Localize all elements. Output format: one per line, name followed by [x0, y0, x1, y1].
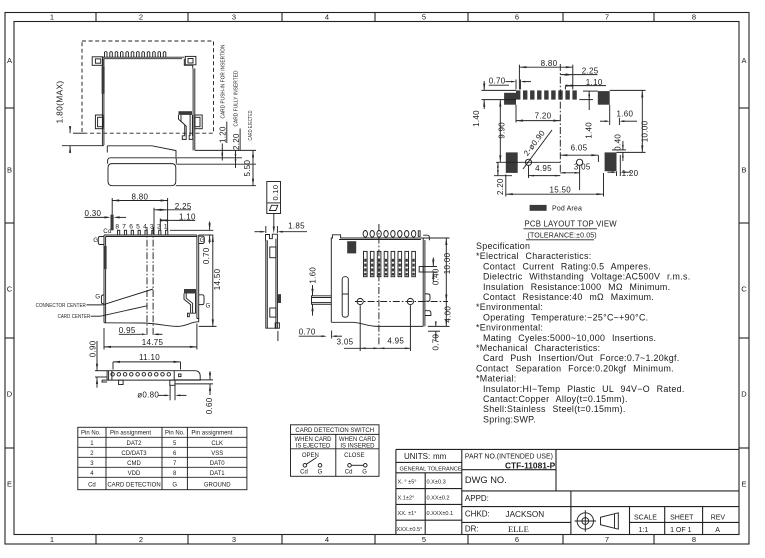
- side view: top contact pins: [105, 52, 108, 58]
- svg-text:A: A: [741, 56, 746, 65]
- svg-text:4.95: 4.95: [535, 164, 552, 173]
- svg-text:G: G: [200, 237, 205, 244]
- svg-text:CARD CENTER: CARD CENTER: [58, 314, 91, 320]
- top view: body outline: [103, 235, 105, 323]
- svg-text:PCB LAYOUT TOP VIEW: PCB LAYOUT TOP VIEW: [525, 220, 618, 229]
- top view: top pin stubs: [118, 230, 120, 235]
- svg-text:1: 1: [50, 13, 54, 22]
- svg-text:D: D: [741, 390, 747, 399]
- svg-text:Cd: Cd: [345, 470, 353, 476]
- bottom view: right mid tab: [425, 294, 430, 301]
- svg-text:DWG NO.: DWG NO.: [465, 475, 507, 485]
- svg-text:7.20: 7.20: [535, 111, 552, 120]
- svg-text:XXX.±0.5°: XXX.±0.5°: [397, 527, 423, 533]
- svg-text:0.XX±0.2: 0.XX±0.2: [427, 495, 450, 501]
- bottom view: top contact ovals: [363, 231, 367, 238]
- specification text block: [476, 241, 691, 424]
- svg-text:4.95: 4.95: [387, 337, 404, 346]
- frame column ticks bottom: [96, 535, 654, 545]
- svg-text:Insulation Resistance:1000 M: Insulation Resistance:1000 MΩ Minimum.: [483, 282, 670, 292]
- svg-text:E: E: [7, 480, 12, 489]
- svg-text:Dielectric Withstanding Volt: Dielectric Withstanding Voltage:AC500V r…: [483, 272, 691, 282]
- svg-text:G: G: [206, 303, 211, 310]
- side view: shell top-right mount tab: [185, 56, 196, 64]
- svg-text:Cd: Cd: [88, 482, 96, 488]
- svg-text:(TOLERANCE:±0.05): (TOLERANCE:±0.05): [528, 233, 597, 240]
- frame column numbers bottom: [50, 535, 696, 544]
- side view: pcb line: [62, 145, 104, 147]
- top view: Cd bold contact: [111, 215, 114, 231]
- bottom view: centerline: [378, 224, 380, 345]
- svg-text:3: 3: [232, 13, 236, 22]
- switch close symbol: [348, 464, 367, 468]
- svg-text:3.05: 3.05: [337, 338, 354, 347]
- bottom view: left slot: [342, 277, 348, 317]
- svg-text:1.40: 1.40: [584, 122, 593, 139]
- pcb: mount holes: [525, 159, 531, 165]
- side view: card stack (ejected / inserted positions): [107, 146, 176, 151]
- bottom view: break bottom edge: [331, 322, 423, 326]
- profile: square hole lower: [270, 308, 276, 317]
- title block: [396, 449, 739, 534]
- svg-text:C: C: [741, 285, 747, 294]
- svg-text:1.85: 1.85: [288, 222, 305, 231]
- svg-text:Insulator:HI−Temp Plastic UL: Insulator:HI−Temp Plastic UL 94V−O Rated…: [483, 384, 685, 394]
- profile bottom extension: [277, 331, 279, 341]
- svg-text:2: 2: [139, 13, 143, 22]
- svg-text:Contact Separation Force:0.2: Contact Separation Force:0.20kgf Minimum…: [476, 363, 674, 373]
- frame column ticks top: [96, 13, 654, 22]
- pcb: centerline: [559, 64, 561, 174]
- svg-text:5: 5: [422, 535, 426, 544]
- svg-text:Shell:Stainless Steel(t=0.15m: Shell:Stainless Steel(t=0.15mm).: [483, 404, 626, 414]
- svg-text:0.70: 0.70: [489, 77, 506, 86]
- svg-text:*Mechanical Characteristics:: *Mechanical Characteristics:: [476, 343, 600, 353]
- side view: shell body outline: [101, 57, 103, 146]
- svg-text:10.00: 10.00: [443, 252, 452, 274]
- svg-text:GROUND: GROUND: [204, 482, 231, 488]
- svg-text:14.75: 14.75: [142, 338, 164, 347]
- svg-text:7: 7: [122, 223, 126, 230]
- svg-text:*Material:: *Material:: [476, 374, 517, 384]
- svg-text:SHEET: SHEET: [670, 515, 694, 522]
- svg-text:CLK: CLK: [211, 441, 223, 447]
- svg-text:Pin No.: Pin No.: [81, 431, 101, 437]
- svg-text:8.80: 8.80: [132, 192, 149, 201]
- svg-text:mm: mm: [433, 452, 447, 461]
- svg-text:G: G: [93, 237, 98, 244]
- svg-text:*Environmental:: *Environmental:: [476, 323, 543, 333]
- svg-text:G: G: [95, 293, 100, 300]
- svg-text:CARD EJECTED: CARD EJECTED: [248, 111, 254, 141]
- switch open symbol: [303, 458, 322, 468]
- front view: body outline: [107, 371, 200, 380]
- svg-text:XX. ±1°: XX. ±1°: [398, 511, 417, 517]
- flatness leader: [273, 214, 275, 230]
- leader connector center: [87, 304, 103, 306]
- svg-text:X.1±2°: X.1±2°: [398, 495, 415, 501]
- svg-text:G: G: [318, 470, 323, 476]
- svg-text:15.50: 15.50: [550, 186, 572, 195]
- svg-text:VSS: VSS: [211, 451, 223, 457]
- svg-text:GENERAL TOLERANCE: GENERAL TOLERANCE: [400, 466, 462, 472]
- svg-text:D: D: [7, 390, 13, 399]
- bottom view: mount holes: [357, 298, 363, 304]
- card detection switch table: [291, 425, 380, 477]
- svg-text:Cd: Cd: [300, 470, 308, 476]
- svg-text:1.40: 1.40: [472, 110, 481, 127]
- svg-text:E: E: [741, 480, 746, 489]
- svg-text:6: 6: [515, 535, 519, 544]
- profile: square hole upper: [270, 247, 276, 258]
- bottom view: contact slots: [364, 251, 368, 276]
- side view: left lower tab: [95, 115, 102, 129]
- svg-text:CONNECTOR CENTER: CONNECTOR CENTER: [36, 303, 86, 309]
- profile: bottom foot: [275, 323, 279, 328]
- svg-text:0.30: 0.30: [85, 209, 102, 218]
- svg-text:UNITS:: UNITS:: [404, 452, 430, 461]
- svg-text:Spring:SWP.: Spring:SWP.: [483, 414, 536, 424]
- side view: shell top-left mount tab: [92, 57, 103, 66]
- svg-text:1.60: 1.60: [308, 267, 317, 284]
- side view: right lower tab: [195, 115, 202, 129]
- frame column numbers top: [50, 13, 696, 22]
- svg-text:0.70: 0.70: [299, 327, 316, 336]
- top view: left ground tab G: [98, 237, 104, 245]
- leader card center: [91, 315, 101, 317]
- svg-text:Contact Resistance:40 mΩ Ma: Contact Resistance:40 mΩ Maximum.: [483, 292, 654, 302]
- svg-text:X. ° ±5°: X. ° ±5°: [398, 480, 417, 486]
- frame row ticks left: [5, 108, 14, 448]
- svg-text:1.80(MAX): 1.80(MAX): [56, 80, 65, 123]
- svg-text:Card Push Insertion/Out For: Card Push Insertion/Out Force:0.7~1.20kg…: [483, 353, 680, 363]
- svg-text:0.40: 0.40: [613, 134, 622, 151]
- top view: right lower ground tab G: [199, 295, 204, 305]
- svg-text:CLOSE: CLOSE: [344, 453, 364, 459]
- svg-text:0.X±0.3: 0.X±0.3: [427, 480, 446, 486]
- svg-text:1:1: 1:1: [639, 527, 649, 534]
- svg-text:6: 6: [129, 223, 133, 230]
- pin table: [78, 427, 247, 489]
- svg-text:DR:: DR:: [465, 525, 479, 534]
- svg-text:A: A: [7, 56, 12, 65]
- frame row letters right: [741, 56, 747, 489]
- svg-text:0.95: 0.95: [119, 326, 136, 335]
- svg-text:Specification: Specification: [476, 241, 530, 251]
- side view: left contact dark strip: [102, 66, 105, 94]
- bottom view: right edge small tab: [419, 267, 423, 273]
- svg-text:4.00: 4.00: [443, 306, 452, 323]
- svg-text:IS EJECTED: IS EJECTED: [296, 443, 331, 449]
- svg-text:CARD DETECTION SWITCH: CARD DETECTION SWITCH: [295, 428, 374, 434]
- svg-text:CD/DAT3: CD/DAT3: [121, 451, 147, 457]
- svg-text:CTF-11081-P: CTF-11081-P: [505, 460, 556, 470]
- svg-text:Pin assignment: Pin assignment: [110, 431, 151, 437]
- front view: feet: [119, 380, 124, 384]
- svg-text:Pod Area: Pod Area: [552, 206, 582, 213]
- svg-text:PART NO.(INTENDED USE): PART NO.(INTENDED USE): [465, 452, 553, 461]
- svg-text:11.10: 11.10: [139, 353, 160, 362]
- svg-text:7: 7: [605, 535, 609, 544]
- svg-text:G: G: [172, 482, 177, 488]
- card position reference lines: [195, 149, 256, 151]
- svg-text:0.70: 0.70: [202, 247, 211, 264]
- svg-text:CARD PUSH-IN FOR INSERTION: CARD PUSH-IN FOR INSERTION: [220, 45, 226, 119]
- svg-text:6: 6: [515, 13, 519, 22]
- top view: right ground tab G: [199, 236, 205, 243]
- svg-text:Operating Temperature:−25°C~+: Operating Temperature:−25°C~+90°C.: [483, 312, 648, 322]
- bottom view: spring (hatched): [347, 241, 356, 253]
- front view: pin holes: [111, 373, 115, 377]
- svg-text:1 OF 1: 1 OF 1: [670, 527, 692, 534]
- svg-text:G: G: [362, 470, 367, 476]
- svg-text:1.60: 1.60: [617, 109, 634, 118]
- side view: dashed travel outline: [82, 41, 214, 133]
- pcb legend pad area: [530, 205, 547, 211]
- svg-text:*Environmental:: *Environmental:: [476, 302, 543, 312]
- svg-text:1.20: 1.20: [219, 126, 228, 143]
- svg-text:4: 4: [143, 223, 147, 230]
- svg-text:9.90: 9.90: [498, 122, 507, 139]
- svg-text:5: 5: [136, 223, 140, 230]
- top view: centerlines: [146, 227, 148, 337]
- svg-text:ELLE: ELLE: [508, 524, 529, 534]
- svg-text:Mating Cyeles:5000~10,000 In: Mating Cyeles:5000~10,000 Insertions.: [483, 333, 656, 343]
- top view: pin numbers 8..1: [115, 223, 168, 230]
- svg-text:OPEN: OPEN: [302, 453, 319, 459]
- svg-text:CARD DETECTION: CARD DETECTION: [107, 482, 160, 488]
- svg-text:2.20: 2.20: [496, 178, 505, 195]
- svg-text:DAT0: DAT0: [210, 461, 226, 467]
- svg-text:4: 4: [325, 535, 329, 544]
- side view: eject latch hook: [179, 115, 187, 139]
- svg-text:14.50: 14.50: [213, 268, 222, 290]
- svg-text:IS INSERED: IS INSERED: [340, 443, 375, 449]
- top view: left mid ground tab G: [101, 295, 104, 304]
- dim 14.50: [212, 235, 214, 326]
- svg-text:1.20: 1.20: [622, 169, 639, 178]
- pin table text: [81, 431, 233, 437]
- svg-text:ø0.80: ø0.80: [137, 390, 159, 399]
- svg-text:SCALE: SCALE: [634, 515, 657, 522]
- svg-text:8: 8: [692, 535, 696, 544]
- top view: eject latch: [184, 289, 196, 294]
- frame row letters left: [7, 56, 13, 489]
- svg-text:4: 4: [325, 13, 329, 22]
- profile: mid hook: [277, 294, 281, 303]
- svg-text:CMD: CMD: [127, 461, 141, 467]
- svg-text:*Electrical Characteristics:: *Electrical Characteristics:: [476, 251, 591, 261]
- svg-text:8: 8: [115, 223, 119, 230]
- dim 0.70 (pin protrusion): [170, 229, 213, 231]
- bottom view: right lower tab: [425, 311, 431, 316]
- bottom view: body outline: [331, 235, 423, 327]
- bottom view: top-right corner tab: [423, 235, 429, 240]
- svg-text:2.20: 2.20: [232, 133, 241, 150]
- svg-text:2: 2: [139, 535, 143, 544]
- svg-text:Cantact:Copper Alloy(t=0.15mm: Cantact:Copper Alloy(t=0.15mm).: [483, 394, 628, 404]
- svg-text:1: 1: [50, 535, 54, 544]
- svg-text:WHEN CARD: WHEN CARD: [339, 437, 377, 443]
- svg-text:5: 5: [422, 13, 426, 22]
- svg-text:APPD:: APPD:: [465, 494, 489, 503]
- title block text: [404, 452, 556, 534]
- svg-text:REV: REV: [711, 515, 726, 522]
- svg-text:DAT1: DAT1: [210, 471, 226, 477]
- svg-text:WHEN CARD: WHEN CARD: [295, 437, 333, 443]
- pcb: small pads row: [516, 90, 577, 99]
- svg-text:0.XXX±0.1: 0.XXX±0.1: [427, 511, 454, 517]
- svg-text:Pin No.: Pin No.: [165, 431, 185, 437]
- svg-text:3.05: 3.05: [574, 162, 591, 171]
- svg-text:5.50: 5.50: [243, 159, 252, 176]
- svg-text:B: B: [7, 166, 12, 175]
- svg-text:DAT2: DAT2: [127, 441, 143, 447]
- svg-text:6.05: 6.05: [571, 144, 588, 153]
- svg-text:8: 8: [692, 13, 696, 22]
- top view: left contact dark strip: [104, 246, 107, 269]
- svg-text:Cd: Cd: [103, 228, 112, 235]
- svg-text:0.60: 0.60: [205, 397, 214, 414]
- bottom view: left tab (1.60): [312, 296, 332, 305]
- svg-text:7: 7: [605, 13, 609, 22]
- svg-text:VDD: VDD: [128, 471, 141, 477]
- svg-text:C: C: [7, 285, 13, 294]
- svg-text:Pin assignment: Pin assignment: [191, 431, 232, 437]
- svg-text:B: B: [741, 166, 746, 175]
- svg-text:3: 3: [232, 535, 236, 544]
- svg-text:JACKSON: JACKSON: [506, 510, 545, 519]
- profile view: outline: [266, 234, 278, 328]
- third angle projection symbol: [575, 510, 619, 532]
- pcb: corner pads: [504, 91, 616, 173]
- frame row ticks right: [739, 108, 749, 448]
- flatness callout box: [267, 182, 281, 214]
- side view: eject latch dark bar: [179, 111, 193, 115]
- svg-text:0.90: 0.90: [88, 340, 97, 357]
- svg-text:0.10: 0.10: [271, 185, 280, 201]
- svg-text:A: A: [715, 527, 720, 534]
- svg-text:CARD FULLY INSERTED: CARD FULLY INSERTED: [234, 71, 240, 127]
- svg-text:Contact Current Rating:0.5: Contact Current Rating:0.5 Amperes.: [483, 261, 651, 271]
- svg-text:CHKD:: CHKD:: [465, 510, 490, 519]
